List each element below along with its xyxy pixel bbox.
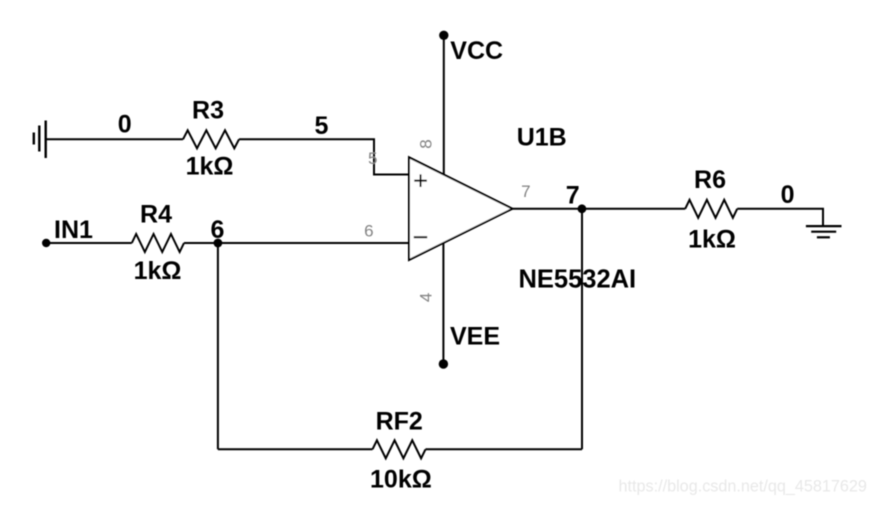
svg-text:7: 7 [521, 182, 530, 201]
svg-text:6: 6 [364, 222, 373, 241]
svg-text:https://blog.csdn.net/qq_45817: https://blog.csdn.net/qq_45817629 [619, 478, 867, 496]
svg-text:R4: R4 [140, 201, 172, 229]
node 7 junction dot [578, 204, 587, 213]
svg-text:IN1: IN1 [54, 216, 93, 244]
svg-text:4: 4 [416, 293, 435, 302]
wire feedback bottom right [426, 448, 583, 450]
wire node 6 down to feedback [217, 243, 219, 449]
wire R4 to op-amp - input (node 6) [184, 242, 410, 244]
ground GND right [806, 226, 842, 237]
svg-text:6: 6 [211, 216, 225, 244]
resistor R4 [132, 234, 184, 252]
svg-text:1kΩ: 1kΩ [186, 153, 234, 181]
wire IN1 to R4 [46, 242, 132, 244]
svg-text:10kΩ: 10kΩ [370, 466, 432, 494]
svg-text:7: 7 [566, 181, 580, 209]
op-amp U1B triangle [409, 157, 513, 260]
ground GND left [34, 121, 46, 159]
node 6 junction dot [214, 239, 223, 248]
svg-text:RF2: RF2 [376, 407, 423, 435]
resistor R6 [685, 200, 737, 218]
svg-text:VEE: VEE [450, 323, 500, 351]
svg-text:R6: R6 [694, 166, 726, 194]
svg-text:R3: R3 [192, 97, 224, 125]
node VCC terminal dot [439, 31, 448, 40]
wire feedback up to node 7 [581, 209, 583, 449]
wire op-amp output to right ground [513, 208, 686, 210]
svg-text:1kΩ: 1kΩ [688, 225, 736, 253]
svg-text:5: 5 [315, 112, 329, 140]
resistor R3 [183, 130, 239, 148]
wire R6 to right ground [737, 209, 823, 226]
op-amp minus sign [414, 236, 427, 238]
wire VCC to op-amp pin 8 [443, 35, 445, 174]
svg-text:1kΩ: 1kΩ [134, 257, 182, 285]
wire feedback bottom left [218, 448, 373, 450]
svg-text:5: 5 [368, 149, 377, 168]
svg-text:U1B: U1B [517, 124, 567, 152]
wire op-amp pin 4 to VEE [442, 243, 444, 364]
svg-text:VCC: VCC [450, 37, 503, 65]
svg-text:8: 8 [416, 139, 435, 148]
svg-text:0: 0 [118, 111, 132, 139]
svg-text:0: 0 [781, 181, 795, 209]
op-amp plus sign [414, 174, 427, 187]
wire ground to R3 [46, 138, 183, 140]
wire R3 to op-amp + input (node 5) [239, 139, 410, 174]
node IN1 terminal dot [42, 239, 50, 247]
node VEE terminal dot [439, 359, 448, 368]
svg-text:NE5532AI: NE5532AI [518, 265, 636, 293]
resistor RF2 [373, 440, 426, 458]
